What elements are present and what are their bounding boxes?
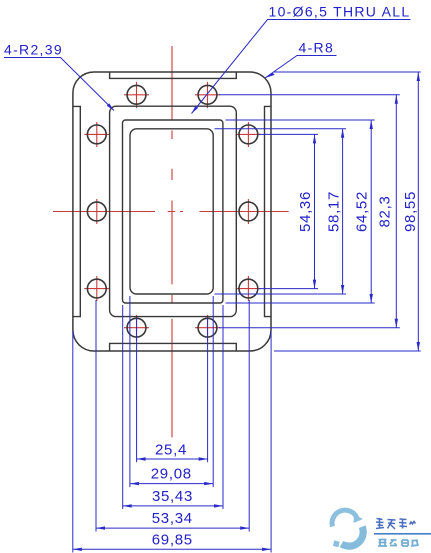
hole H9 right-middle (cross + circle) xyxy=(239,199,258,224)
arrowheads dim 53,34 xyxy=(96,526,105,529)
horizontal centerline xyxy=(53,211,289,213)
top edge recess notch xyxy=(110,72,237,78)
hole H10 right-lower (cross + circle) xyxy=(236,276,261,301)
svg-text:4-R8: 4-R8 xyxy=(299,40,335,56)
dimension line 53,34 xyxy=(96,527,249,529)
svg-text:58,17: 58,17 xyxy=(325,191,342,232)
bottom edge recess notch xyxy=(110,343,237,351)
hole H4 bottom-right (cross + circle) xyxy=(195,315,220,341)
extension lines dim 82,3 xyxy=(219,95,400,328)
arrowheads dim 69,85 xyxy=(73,548,82,551)
watermark underline xyxy=(374,533,431,535)
arrowheads dim 64,52 xyxy=(370,120,373,129)
svg-text:98,55: 98,55 xyxy=(402,191,419,232)
svg-text:53,34: 53,34 xyxy=(152,510,193,527)
leader line 10-dia6,5 xyxy=(192,20,411,114)
arrowheads dim 29,08 xyxy=(130,482,139,485)
dimension line 58,17 xyxy=(342,129,344,294)
dimension line 54,36 xyxy=(314,134,316,288)
svg-text:54,36: 54,36 xyxy=(297,191,314,232)
leader arrowhead 4-R2,39 xyxy=(107,103,114,110)
svg-text:10-Ø6,5 THRU ALL: 10-Ø6,5 THRU ALL xyxy=(269,4,411,20)
svg-text:4-R2,39: 4-R2,39 xyxy=(4,42,63,58)
svg-text:64,52: 64,52 xyxy=(353,191,370,232)
hole H7 left-lower (cross + circle) xyxy=(84,276,109,301)
extension lines dim 64,52 xyxy=(226,120,375,303)
dimension line 25,4 xyxy=(137,458,208,460)
waveguide opening inner edge xyxy=(130,129,213,294)
flange plate outline (rounded rect, 4-R8 corners) xyxy=(73,72,271,351)
dimension line 64,52 xyxy=(370,120,372,303)
svg-text:29,08: 29,08 xyxy=(151,466,192,483)
raised boss outline (4-R2,39 corners) xyxy=(110,106,237,316)
arrowheads dim 54,36 xyxy=(313,134,316,143)
leader arrowhead 10-dia6,5 xyxy=(192,106,199,114)
dimension line 82,3 xyxy=(395,95,397,328)
hole H8 right-upper (cross + circle) xyxy=(236,122,261,147)
hole H1 top-left (cross + circle) xyxy=(124,82,149,108)
dimension line 98,55 xyxy=(417,72,419,351)
vertical centerline xyxy=(171,46,173,438)
arrowheads dim 25,4 xyxy=(137,457,146,460)
leader arrowhead 4-R8 xyxy=(265,72,275,78)
extension lines dim 58,17 xyxy=(215,129,347,294)
extension lines dim 35,43 xyxy=(123,305,223,509)
waveguide opening outer edge xyxy=(123,120,223,303)
svg-text:25,4: 25,4 xyxy=(155,441,187,458)
leader line 4-R2,39 xyxy=(4,58,114,111)
dimension line 29,08 xyxy=(130,483,213,485)
watermark chinese title xyxy=(376,518,416,529)
right edge recess notch xyxy=(265,106,272,316)
watermark subtext xyxy=(378,540,419,547)
arrowheads dim 35,43 xyxy=(123,504,132,507)
arrowheads dim 58,17 xyxy=(341,129,344,138)
extension lines dim 98,55 xyxy=(274,72,421,351)
extension lines dim 54,36 xyxy=(259,134,318,288)
dimension line 35,43 xyxy=(123,505,223,507)
dimension line 69,85 xyxy=(73,548,271,550)
hole H5 left-upper (cross + circle) xyxy=(84,122,109,147)
hole H6 left-middle (cross + circle) xyxy=(87,199,106,224)
arrowheads dim 82,3 xyxy=(395,95,398,104)
hole H2 top-right (cross + circle) xyxy=(195,82,220,108)
hole H3 bottom-left (cross + circle) xyxy=(124,315,149,341)
extension lines dim 53,34 xyxy=(96,300,249,532)
svg-text:69,85: 69,85 xyxy=(152,531,193,548)
arrowheads dim 98,55 xyxy=(417,72,420,81)
left edge recess notch xyxy=(73,106,80,316)
svg-text:35,43: 35,43 xyxy=(152,488,193,505)
extension lines dim 25,4 xyxy=(137,318,208,462)
leader line 4-R8 xyxy=(265,56,337,79)
extension lines dim 29,08 xyxy=(130,296,213,487)
svg-text:82,3: 82,3 xyxy=(377,196,394,228)
extension lines dim 69,85 xyxy=(73,331,271,553)
watermark logo swirl xyxy=(332,510,363,547)
